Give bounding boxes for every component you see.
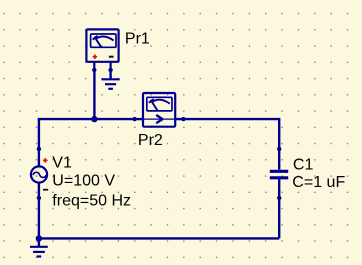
label V1 xyxy=(52,154,72,171)
capacitor C1 xyxy=(270,147,288,200)
value U=100 V xyxy=(52,173,115,190)
value freq=50 Hz xyxy=(52,192,131,209)
svg-text:C1: C1 xyxy=(293,156,314,173)
svg-text:Pr1: Pr1 xyxy=(125,31,150,48)
wire: top rail right segment from Pr2 to C1 branch xyxy=(183,118,279,120)
wire: Pr1 left leg drop to top rail xyxy=(93,70,95,119)
wire: right vertical down to C1 top xyxy=(278,118,280,149)
wire: C1 bottom down to bottom rail xyxy=(278,198,280,239)
svg-text:C=1 uF: C=1 uF xyxy=(292,174,345,191)
ground: under V1 xyxy=(30,238,48,256)
junction: Pr1 drop joins top rail xyxy=(91,116,97,122)
svg-text:U=100 V: U=100 V xyxy=(52,173,115,190)
wire: bottom rail xyxy=(39,237,279,239)
wire: top-left vertical (node between V1 plus and top rail) xyxy=(38,119,40,149)
value C=1 uF xyxy=(292,174,345,191)
voltage source V1 (AC) xyxy=(31,147,48,200)
wire: V1 minus down to ground junction xyxy=(38,198,40,239)
label Pr1 xyxy=(125,31,150,48)
svg-text:Pr2: Pr2 xyxy=(138,132,163,149)
label Pr2 xyxy=(138,132,163,149)
ground: under Pr1 right leg xyxy=(102,70,120,89)
label C1 xyxy=(293,156,314,173)
wire: top rail left segment to Pr2 xyxy=(38,118,135,120)
svg-text:freq=50 Hz: freq=50 Hz xyxy=(52,192,131,209)
svg-text:V1: V1 xyxy=(52,154,72,171)
junction: V1/ground/bottom-rail xyxy=(36,235,42,241)
ammeter Pr2 xyxy=(132,93,185,127)
voltmeter Pr1 xyxy=(86,29,118,72)
